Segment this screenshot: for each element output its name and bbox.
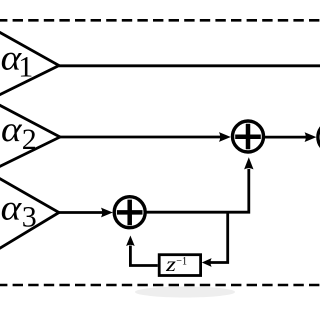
adder S2 (circle plus) bbox=[233, 121, 264, 152]
wire: S1 output right to node under S2 bbox=[145, 169, 249, 212]
arrowhead into S1 bottom bbox=[126, 236, 135, 247]
svg-text:−1: −1 bbox=[176, 255, 187, 267]
gain triangle a1 bbox=[0, 31, 59, 95]
wire: feedback tap down to delay input bbox=[211, 212, 228, 262]
svg-text:z: z bbox=[165, 254, 176, 276]
wire: a1 output to right edge bbox=[59, 64, 320, 67]
svg-text:α: α bbox=[1, 109, 23, 149]
dashed figure border bottom bbox=[0, 284, 320, 287]
wire: a2 output to adder S2 bbox=[60, 136, 221, 139]
wire: S2 output to right edge bbox=[264, 136, 307, 139]
arrowhead into S2 bottom bbox=[244, 157, 253, 169]
svg-text:1: 1 bbox=[18, 51, 33, 84]
adder S1 (circle plus) bbox=[114, 197, 145, 228]
arrowhead into S2 left bbox=[219, 132, 231, 142]
svg-text:2: 2 bbox=[22, 123, 37, 156]
arrowhead into cropped adder at right edge bbox=[305, 132, 317, 142]
arrowhead into delay right bbox=[202, 258, 212, 267]
arrowhead into S1 left bbox=[101, 208, 113, 218]
label alpha_1 bbox=[1, 38, 34, 84]
delay block z^-1 bbox=[159, 254, 200, 276]
scan smudge artifact bbox=[135, 287, 235, 298]
label alpha_3 bbox=[1, 188, 37, 234]
gain triangle a2 bbox=[0, 104, 60, 167]
gain triangle a3 bbox=[0, 178, 59, 250]
wire: a3 output to adder S1 bbox=[59, 211, 103, 214]
wire: delay output up into S1 bottom bbox=[130, 246, 157, 266]
dashed figure border top bbox=[0, 19, 320, 22]
svg-text:α: α bbox=[1, 188, 23, 228]
svg-text:3: 3 bbox=[22, 200, 37, 233]
label alpha_2 bbox=[1, 109, 37, 156]
cropped adder arc at right edge bbox=[318, 122, 320, 153]
